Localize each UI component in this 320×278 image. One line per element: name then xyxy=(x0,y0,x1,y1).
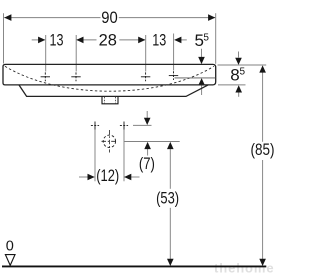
extension line tap hole 3 xyxy=(145,35,147,72)
extension line left (90) xyxy=(3,13,5,63)
extension line tap hole 1 xyxy=(45,35,47,72)
circle centerlines xyxy=(108,130,110,153)
svg-text:0: 0 xyxy=(6,238,14,254)
dimension (53) line upper xyxy=(169,149,171,189)
dimension 28 right arrow xyxy=(119,39,145,41)
dimension (85) line upper xyxy=(262,72,264,142)
dimension (12) left arrow xyxy=(79,176,94,178)
dimension 5.5 down arrow xyxy=(201,49,203,58)
dimension (12) right arrow xyxy=(125,176,140,178)
tap hole cross 3 xyxy=(141,72,150,81)
extension line top 8.5 xyxy=(218,64,267,66)
extension line right (90) xyxy=(215,13,217,64)
detail extension line right xyxy=(123,130,125,182)
svg-text:5: 5 xyxy=(240,67,246,78)
detail cross right xyxy=(120,122,128,130)
tap hole cross 4 xyxy=(169,71,178,80)
svg-text:8: 8 xyxy=(230,65,239,84)
svg-text:13: 13 xyxy=(50,31,64,50)
reference line cross height xyxy=(133,124,152,126)
dimension 13 left arrow xyxy=(32,39,45,41)
svg-text:90: 90 xyxy=(101,8,118,27)
dimension (53) line lower xyxy=(169,208,171,260)
svg-text:(53): (53) xyxy=(156,189,179,208)
tap hole cross 1 xyxy=(41,72,50,81)
svg-text:5: 5 xyxy=(203,32,209,43)
drain box xyxy=(102,96,118,103)
dimension 8.5 up arrow xyxy=(238,91,240,97)
svg-text:thehome: thehome xyxy=(214,261,274,276)
svg-text:28: 28 xyxy=(99,31,117,50)
washbasin apron xyxy=(19,85,208,97)
extension line tap hole 4 xyxy=(173,34,175,71)
svg-text:(85): (85) xyxy=(251,140,275,159)
detail extension line left xyxy=(94,130,96,182)
reference line 5.5 xyxy=(175,77,216,79)
datum triangle xyxy=(5,255,15,266)
dimension (85) line lower xyxy=(262,160,264,260)
svg-text:(12): (12) xyxy=(96,166,119,185)
bowl hidden curve xyxy=(5,66,214,91)
washbasin outer body xyxy=(3,64,216,85)
extension line tap hole 2 xyxy=(75,35,77,72)
dimension 5.5 arrow horizontal xyxy=(175,39,187,41)
dimension line 90 xyxy=(4,17,100,19)
dimension 28 left arrow xyxy=(77,39,97,41)
svg-text:(7): (7) xyxy=(139,154,155,173)
drain hidden lines xyxy=(103,97,105,104)
dimension (7) up arrow xyxy=(147,148,149,156)
dimension (7) down arrow xyxy=(146,111,148,118)
ground line xyxy=(2,265,266,267)
extension line bottom 8.5 xyxy=(218,84,246,86)
svg-text:13: 13 xyxy=(152,31,166,50)
dimension 5.5 up arrow xyxy=(201,84,203,95)
tap hole cross 2 xyxy=(71,72,80,81)
dimension 8.5 down arrow xyxy=(238,52,240,58)
detail cross left xyxy=(91,122,99,130)
reference line circle height xyxy=(125,141,180,143)
detail hole circle xyxy=(103,135,115,147)
